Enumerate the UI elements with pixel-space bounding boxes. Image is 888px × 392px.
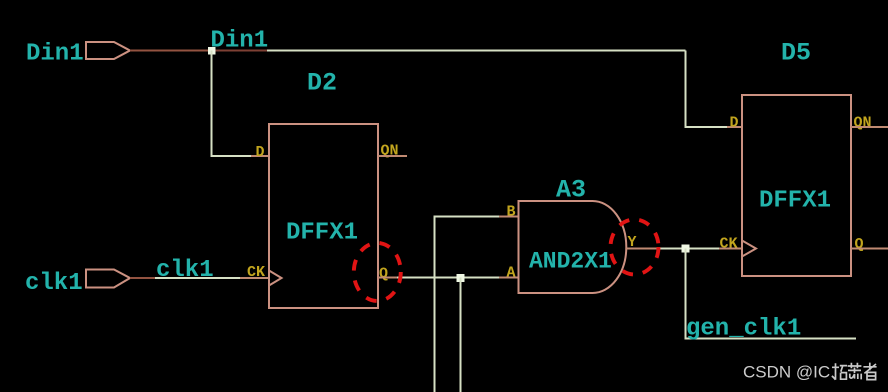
junction node on Y net	[682, 245, 690, 253]
highlight ellipse around D2.Q	[354, 243, 401, 301]
svg-text:D: D	[730, 115, 739, 132]
port clk1	[86, 270, 130, 288]
wire stub into D5 pin CK	[719, 248, 742, 250]
svg-text:AND2X1: AND2X1	[529, 249, 612, 275]
net label Din1 underline	[214, 50, 267, 52]
wire stub into A3 pin B	[499, 216, 519, 218]
svg-text:A3: A3	[556, 176, 586, 205]
svg-text:D: D	[256, 144, 265, 161]
svg-text:D5: D5	[781, 39, 811, 68]
clock triangle of D5	[742, 241, 756, 257]
wire stub into D2 pin CK	[240, 277, 269, 279]
wire Din1 vertical to D2.D	[212, 51, 253, 157]
svg-text:gen_clk1: gen_clk1	[686, 316, 801, 343]
watermark glyph huang	[848, 363, 862, 380]
wire gen_clk1 vertical	[686, 249, 857, 339]
wire Din1 port to junction	[130, 50, 212, 52]
wire B net vertical	[435, 217, 501, 392]
wire Q net vertical down	[460, 278, 462, 392]
wire net Y to D5.CK	[657, 248, 720, 250]
svg-text:QN: QN	[854, 115, 872, 132]
junction node Din1	[208, 47, 216, 55]
svg-text:DFFX1: DFFX1	[286, 220, 358, 247]
wire Din1 vertical to D5.D	[686, 51, 729, 128]
wire stub into A3 pin A	[499, 277, 519, 279]
wire clk1 port stub	[130, 277, 156, 279]
port Din1	[86, 42, 130, 59]
svg-text:CK: CK	[247, 264, 265, 281]
junction node on Q net	[457, 274, 465, 282]
watermark glyph tuo	[832, 363, 847, 380]
svg-text:Q: Q	[379, 266, 388, 283]
and-gate A3 body	[519, 201, 627, 293]
flip-flop D2 body	[269, 124, 378, 308]
wire net Din1 top horizontal	[212, 50, 686, 52]
svg-text:CSDN @IC: CSDN @IC	[743, 363, 830, 382]
highlight ellipse around A3.Y	[611, 220, 659, 275]
svg-text:clk1: clk1	[156, 257, 214, 284]
svg-text:A: A	[507, 265, 516, 282]
wire stub into D5 pin D	[727, 126, 742, 128]
svg-text:clk1: clk1	[25, 270, 83, 297]
wire stub D5 pin QN	[851, 126, 888, 128]
flip-flop D5 body	[742, 95, 851, 276]
svg-text:CK: CK	[720, 236, 738, 253]
wire stub D5 pin Q	[851, 248, 888, 250]
wire stub A3 pin Y	[626, 248, 658, 250]
svg-text:D2: D2	[307, 69, 337, 98]
wire stub D2 pin QN	[378, 155, 407, 157]
clock triangle of D2	[269, 271, 282, 286]
wire stub D2 pin Q	[378, 277, 398, 279]
watermark glyph zhe	[863, 363, 876, 380]
wire stub into D2 pin D	[251, 155, 269, 157]
svg-text:B: B	[507, 204, 516, 221]
wire net clk1	[155, 277, 241, 279]
svg-text:Din1: Din1	[26, 41, 84, 68]
svg-text:DFFX1: DFFX1	[759, 188, 831, 215]
svg-text:Q: Q	[855, 236, 864, 253]
wire net from D2.Q to A3.A	[397, 277, 500, 279]
